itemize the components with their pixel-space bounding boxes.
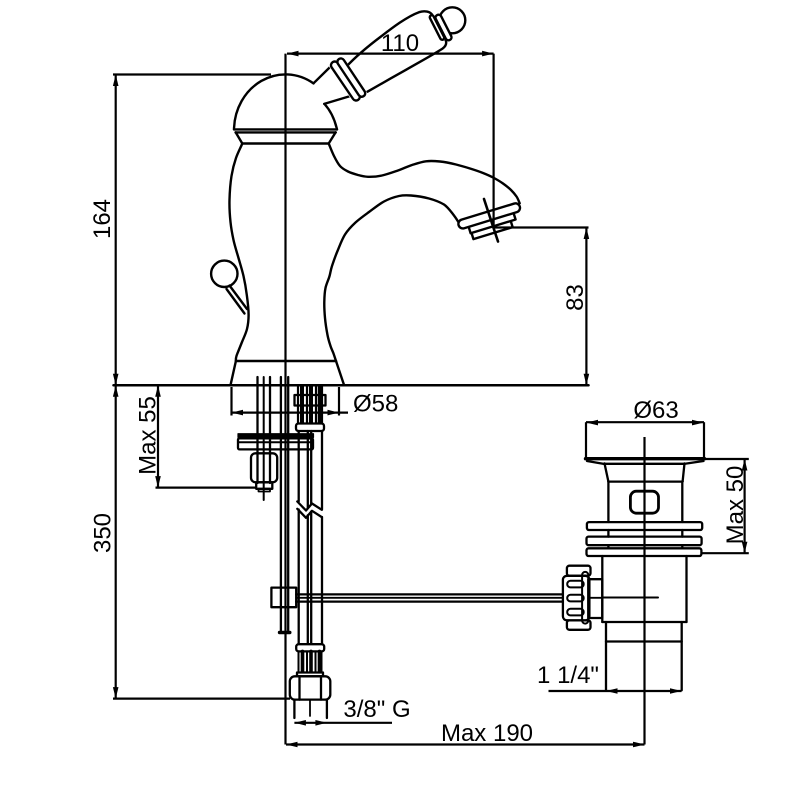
svg-text:Ø58: Ø58 <box>353 391 398 418</box>
svg-text:350: 350 <box>90 513 117 553</box>
svg-text:Ø63: Ø63 <box>633 397 678 424</box>
svg-text:Max 50: Max 50 <box>722 466 749 545</box>
svg-text:1 1/4": 1 1/4" <box>537 662 599 689</box>
svg-text:164: 164 <box>89 199 116 239</box>
svg-text:Max 190: Max 190 <box>441 720 533 747</box>
svg-text:Max 55: Max 55 <box>135 396 162 475</box>
svg-text:3/8" G: 3/8" G <box>343 696 410 723</box>
svg-text:110: 110 <box>381 30 419 57</box>
svg-text:83: 83 <box>562 284 589 311</box>
